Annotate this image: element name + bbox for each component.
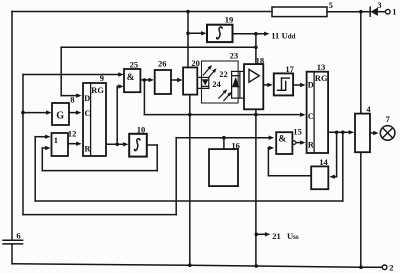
- svg-text:1: 1: [54, 135, 58, 145]
- svg-text:G: G: [56, 110, 64, 121]
- svg-text:D: D: [84, 94, 90, 103]
- svg-text:1: 1: [392, 7, 396, 17]
- svg-text:12: 12: [68, 128, 77, 138]
- svg-text:26: 26: [158, 58, 167, 68]
- svg-text:25: 25: [130, 60, 139, 70]
- svg-text:Udd: Udd: [282, 30, 296, 40]
- svg-text:&: &: [127, 73, 135, 83]
- svg-text:21: 21: [272, 231, 281, 241]
- svg-text:24: 24: [212, 79, 221, 89]
- svg-text:C: C: [308, 112, 314, 121]
- svg-text:Uss: Uss: [287, 231, 299, 241]
- svg-text:15: 15: [293, 126, 302, 136]
- svg-text:3: 3: [377, 0, 381, 10]
- svg-text:4: 4: [366, 104, 371, 114]
- svg-text:RG: RG: [91, 86, 104, 95]
- svg-text:16: 16: [231, 140, 240, 150]
- svg-text:23: 23: [230, 50, 239, 60]
- svg-text:5: 5: [329, 0, 333, 10]
- svg-text:6: 6: [16, 231, 20, 241]
- svg-text:R: R: [85, 145, 91, 154]
- svg-text:20: 20: [191, 58, 200, 68]
- svg-text:R: R: [308, 140, 314, 149]
- svg-text:10: 10: [137, 124, 146, 134]
- svg-text:18: 18: [256, 55, 265, 65]
- svg-text:13: 13: [317, 62, 326, 72]
- svg-text:22: 22: [219, 69, 228, 79]
- svg-text:D: D: [308, 81, 314, 90]
- svg-text:&: &: [278, 135, 286, 145]
- svg-text:17: 17: [285, 64, 294, 74]
- svg-text:19: 19: [225, 14, 234, 24]
- svg-text:C: C: [85, 109, 91, 118]
- svg-text:8: 8: [70, 95, 74, 105]
- svg-text:7: 7: [386, 114, 391, 124]
- svg-text:2: 2: [389, 262, 393, 272]
- svg-text:RG: RG: [315, 74, 328, 83]
- svg-text:11: 11: [271, 30, 279, 40]
- svg-text:9: 9: [100, 73, 104, 83]
- svg-text:14: 14: [319, 157, 328, 167]
